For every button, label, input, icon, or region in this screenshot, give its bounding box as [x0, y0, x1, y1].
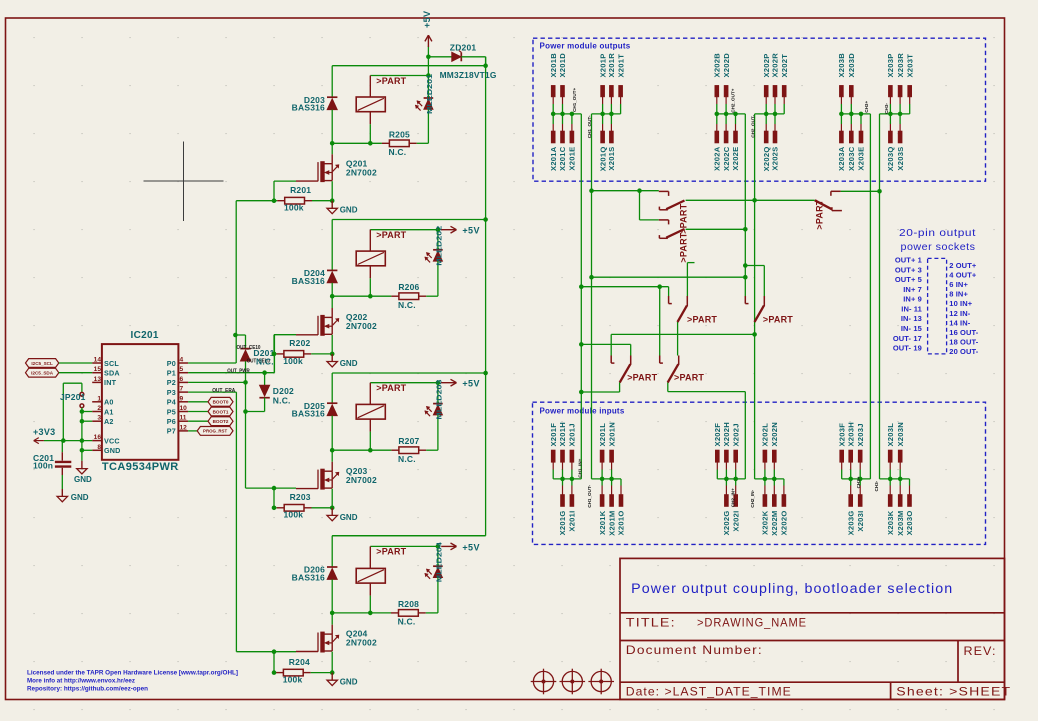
svg-text:X202I: X202I — [731, 511, 740, 532]
svg-text:A0: A0 — [104, 398, 114, 407]
svg-text:N.C.: N.C. — [388, 147, 406, 157]
svg-text:X201K: X201K — [598, 510, 607, 535]
svg-text:R201: R201 — [290, 185, 311, 195]
svg-text:X203F: X203F — [837, 423, 846, 447]
svg-text:BOOT0: BOOT0 — [213, 400, 229, 405]
svg-text:X203D: X203D — [847, 53, 856, 78]
svg-text:>PART: >PART — [814, 199, 824, 229]
svg-text:12 IN-: 12 IN- — [949, 309, 970, 318]
svg-text:X203L: X203L — [886, 423, 895, 447]
svg-text:X201A: X201A — [549, 146, 558, 171]
svg-text:X203S: X203S — [896, 147, 905, 171]
svg-text:15: 15 — [94, 366, 102, 373]
svg-text:10 IN+: 10 IN+ — [949, 299, 972, 308]
svg-text:X203P: X203P — [886, 53, 895, 77]
svg-text:7: 7 — [180, 386, 184, 393]
svg-text:X203E: X203E — [857, 147, 866, 171]
svg-text:Repository: https://github.com: Repository: https://github.com/eez-open — [27, 686, 148, 693]
svg-text:Date: >LAST_DATE_TIME: Date: >LAST_DATE_TIME — [626, 684, 792, 698]
svg-text:X203Q: X203Q — [886, 147, 895, 172]
svg-text:CH3+: CH3+ — [864, 101, 869, 113]
svg-text:GND: GND — [340, 206, 358, 215]
svg-text:8 IN+: 8 IN+ — [949, 290, 968, 299]
svg-text:X201N: X201N — [607, 422, 616, 446]
svg-text:X201I: X201I — [568, 511, 577, 532]
svg-text:SCL: SCL — [104, 359, 119, 368]
svg-text:IN- 15: IN- 15 — [901, 324, 922, 333]
svg-text:R202: R202 — [289, 338, 310, 348]
svg-text:14 IN-: 14 IN- — [949, 318, 970, 327]
svg-text:2 OUT+: 2 OUT+ — [949, 261, 977, 270]
svg-text:>PART: >PART — [376, 76, 406, 86]
svg-text:X201P: X201P — [598, 53, 607, 77]
svg-text:CH1_OUT-: CH1_OUT- — [587, 485, 592, 508]
svg-text:X203T: X203T — [905, 54, 914, 78]
svg-text:4 OUT+: 4 OUT+ — [949, 271, 977, 280]
svg-text:BAS316: BAS316 — [292, 103, 325, 113]
svg-text:>DRAWING_NAME: >DRAWING_NAME — [697, 615, 807, 629]
svg-text:BAS316: BAS316 — [292, 409, 325, 419]
svg-text:X203J: X203J — [856, 423, 865, 446]
svg-text:X202R: X202R — [771, 53, 780, 78]
svg-text:X201L: X201L — [598, 423, 607, 447]
svg-text:OUT+ 3: OUT+ 3 — [895, 265, 922, 274]
svg-text:Licensed under the TAPR Open H: Licensed under the TAPR Open Hardware Li… — [27, 670, 238, 677]
svg-text:R208: R208 — [398, 599, 419, 609]
svg-text:>PART: >PART — [763, 315, 793, 325]
svg-text:REV:: REV: — [964, 644, 997, 658]
svg-text:>PART: >PART — [679, 232, 689, 262]
svg-text:PROG_RST: PROG_RST — [203, 429, 227, 434]
svg-text:CH2_IN+: CH2_IN+ — [730, 488, 735, 507]
svg-text:MLED201: MLED201 — [425, 74, 434, 114]
svg-text:X203N: X203N — [896, 422, 905, 446]
svg-text:IN- 11: IN- 11 — [901, 305, 922, 314]
svg-text:N.C.: N.C. — [398, 617, 416, 627]
svg-text:2N7002: 2N7002 — [346, 475, 377, 485]
svg-text:X203H: X203H — [846, 422, 855, 446]
svg-text:100k: 100k — [284, 203, 304, 213]
svg-text:X202H: X202H — [722, 422, 731, 446]
svg-text:X202G: X202G — [722, 511, 731, 536]
svg-text:2N7002: 2N7002 — [346, 167, 377, 177]
svg-text:X201O: X201O — [617, 511, 626, 536]
svg-text:X202E: X202E — [731, 147, 740, 171]
svg-text:20 OUT-: 20 OUT- — [949, 347, 978, 356]
svg-text:X202K: X202K — [761, 510, 770, 535]
svg-text:X201D: X201D — [558, 53, 567, 78]
svg-text:CH3-: CH3- — [874, 480, 879, 491]
svg-text:X202S: X202S — [771, 147, 780, 171]
svg-text:MM3Z18VT1G: MM3Z18VT1G — [440, 70, 497, 80]
svg-text:X201J: X201J — [568, 423, 577, 446]
svg-text:X203I: X203I — [856, 511, 865, 532]
svg-text:X202T: X202T — [780, 54, 789, 78]
svg-text:10: 10 — [180, 405, 188, 412]
svg-text:R203: R203 — [290, 492, 311, 502]
svg-text:X201T: X201T — [616, 54, 625, 78]
svg-text:100k: 100k — [283, 675, 303, 685]
svg-text:Power output coupling, bootloa: Power output coupling, bootloader select… — [631, 581, 953, 596]
svg-text:X202M: X202M — [770, 511, 779, 536]
svg-text:OUT+ 1: OUT+ 1 — [895, 256, 922, 265]
svg-text:IN+ 9: IN+ 9 — [903, 295, 922, 304]
svg-text:11: 11 — [180, 415, 187, 422]
svg-text:GND: GND — [71, 493, 89, 502]
svg-text:X201E: X201E — [568, 147, 577, 171]
svg-text:+5V: +5V — [462, 226, 479, 236]
svg-text:IC201: IC201 — [131, 330, 159, 341]
svg-text:CH3-: CH3- — [884, 103, 889, 114]
svg-text:OUT- 19: OUT- 19 — [893, 344, 922, 353]
svg-text:GND: GND — [340, 359, 358, 368]
svg-text:MLED203: MLED203 — [435, 380, 444, 420]
svg-text:4: 4 — [180, 357, 184, 364]
svg-text:P5: P5 — [167, 407, 176, 416]
svg-text:8: 8 — [97, 444, 101, 451]
svg-text:Power module inputs: Power module inputs — [540, 407, 625, 416]
svg-text:N.C.: N.C. — [398, 454, 416, 464]
svg-text:OUT+ 5: OUT+ 5 — [895, 275, 922, 284]
svg-text:CH1_IN+: CH1_IN+ — [578, 458, 583, 477]
svg-text:2N7002: 2N7002 — [346, 638, 377, 648]
svg-text:CH1_OUT+: CH1_OUT+ — [572, 88, 577, 112]
svg-text:JP201: JP201 — [60, 392, 86, 402]
svg-text:GND: GND — [74, 475, 92, 484]
svg-text:OUT_PWR: OUT_PWR — [227, 368, 250, 374]
svg-text:OUT- 17: OUT- 17 — [893, 334, 922, 343]
svg-text:>PART: >PART — [376, 230, 406, 240]
svg-text:>PART: >PART — [376, 547, 406, 557]
svg-text:N.C.: N.C. — [256, 357, 274, 367]
svg-text:2: 2 — [97, 405, 101, 412]
svg-text:power sockets: power sockets — [901, 241, 976, 253]
svg-text:X201F: X201F — [549, 423, 558, 447]
svg-text:VCC: VCC — [104, 436, 120, 445]
svg-text:+5V: +5V — [422, 11, 432, 28]
svg-text:More info at http://www.envox.: More info at http://www.envox.hr/eez — [27, 678, 136, 685]
svg-text:20-pin output: 20-pin output — [899, 227, 976, 239]
svg-text:GND: GND — [104, 446, 121, 455]
svg-text:100n: 100n — [33, 461, 53, 471]
svg-text:100k: 100k — [283, 356, 303, 366]
svg-text:X201B: X201B — [549, 53, 558, 78]
svg-text:6: 6 — [180, 376, 184, 383]
svg-text:16: 16 — [94, 434, 102, 441]
svg-text:X202J: X202J — [731, 423, 740, 446]
svg-text:GND: GND — [340, 513, 358, 522]
svg-text:18 OUT-: 18 OUT- — [949, 337, 978, 346]
svg-text:X202P: X202P — [762, 53, 771, 77]
svg-text:X203O: X203O — [905, 511, 914, 536]
svg-text:MLED202: MLED202 — [435, 226, 444, 266]
svg-text:R207: R207 — [398, 436, 419, 446]
svg-text:SDA: SDA — [104, 369, 120, 378]
svg-text:Power module outputs: Power module outputs — [540, 42, 631, 51]
svg-text:P4: P4 — [167, 398, 176, 407]
svg-text:P2: P2 — [167, 378, 176, 387]
svg-text:R204: R204 — [289, 657, 310, 667]
svg-text:I2C5_SCL: I2C5_SCL — [31, 361, 53, 366]
svg-text:>PART: >PART — [627, 373, 657, 383]
svg-text:X203R: X203R — [896, 53, 905, 78]
svg-text:BAS316: BAS316 — [292, 276, 325, 286]
svg-text:>PART: >PART — [376, 383, 406, 393]
svg-text:>PART: >PART — [679, 203, 689, 233]
svg-text:N.C.: N.C. — [398, 300, 416, 310]
svg-text:9: 9 — [180, 395, 184, 402]
svg-text:GND: GND — [340, 678, 358, 687]
svg-text:X202L: X202L — [761, 423, 770, 447]
svg-text:Sheet: >SHEET: Sheet: >SHEET — [896, 684, 1011, 698]
svg-text:MLED204: MLED204 — [435, 541, 444, 582]
svg-text:X202O: X202O — [780, 511, 789, 536]
svg-text:X201H: X201H — [558, 422, 567, 446]
svg-text:Document Number:: Document Number: — [626, 643, 763, 657]
svg-text:ZD201: ZD201 — [450, 42, 477, 52]
svg-text:I2C5_SDA: I2C5_SDA — [31, 371, 54, 376]
svg-text:N.C.: N.C. — [273, 396, 291, 406]
svg-text:X203M: X203M — [896, 511, 905, 536]
svg-text:P3: P3 — [167, 388, 176, 397]
svg-text:X202F: X202F — [713, 423, 722, 447]
svg-text:X202N: X202N — [770, 422, 779, 446]
svg-text:6 IN+: 6 IN+ — [949, 280, 968, 289]
svg-text:CH2_IN-: CH2_IN- — [750, 489, 755, 507]
svg-text:X201M: X201M — [607, 511, 616, 536]
svg-text:X203A: X203A — [837, 146, 846, 171]
svg-text:X201Q: X201Q — [598, 147, 607, 172]
svg-text:A2: A2 — [104, 417, 114, 426]
svg-text:3: 3 — [97, 415, 101, 422]
svg-text:TCA9534PWR: TCA9534PWR — [102, 461, 179, 473]
svg-text:X203G: X203G — [846, 511, 855, 536]
svg-text:CH1_OUT-: CH1_OUT- — [587, 115, 592, 138]
svg-text:100k: 100k — [284, 510, 304, 520]
svg-text:P7: P7 — [167, 427, 176, 436]
svg-text:X201G: X201G — [558, 511, 567, 536]
svg-text:X202A: X202A — [713, 146, 722, 171]
svg-text:A1: A1 — [104, 407, 114, 416]
svg-text:INT: INT — [104, 378, 117, 387]
svg-text:X202Q: X202Q — [762, 147, 771, 172]
svg-text:P6: P6 — [167, 417, 176, 426]
svg-text:X201C: X201C — [558, 146, 567, 171]
svg-text:CH3+: CH3+ — [856, 476, 861, 488]
svg-text:X202C: X202C — [722, 146, 731, 171]
svg-text:R205: R205 — [389, 129, 410, 139]
svg-text:P1: P1 — [167, 369, 176, 378]
svg-text:X203B: X203B — [837, 53, 846, 78]
svg-text:D202: D202 — [273, 386, 294, 396]
svg-text:+5V: +5V — [462, 542, 479, 552]
svg-text:12: 12 — [180, 424, 188, 431]
svg-text:IN+ 7: IN+ 7 — [903, 285, 922, 294]
svg-text:16 OUT-: 16 OUT- — [949, 328, 978, 337]
svg-text:>PART: >PART — [674, 373, 704, 383]
svg-text:+3V3: +3V3 — [33, 427, 55, 437]
svg-text:P0: P0 — [167, 359, 176, 368]
svg-text:OUT_ERA: OUT_ERA — [212, 388, 235, 394]
svg-text:R206: R206 — [398, 282, 419, 292]
svg-text:X201S: X201S — [607, 147, 616, 171]
svg-text:CH2_OUT-: CH2_OUT- — [750, 115, 755, 138]
svg-text:5: 5 — [180, 366, 184, 373]
svg-text:13: 13 — [94, 376, 102, 383]
svg-text:>PART: >PART — [687, 315, 717, 325]
svg-text:IN- 13: IN- 13 — [901, 314, 922, 323]
svg-text:14: 14 — [94, 357, 102, 364]
svg-text:X202B: X202B — [713, 53, 722, 78]
svg-text:BOOT1: BOOT1 — [213, 409, 229, 414]
svg-text:BAS316: BAS316 — [292, 572, 325, 582]
svg-text:X203C: X203C — [847, 146, 856, 171]
svg-text:CH2_OUT+: CH2_OUT+ — [731, 88, 736, 112]
svg-text:X202D: X202D — [722, 53, 731, 78]
svg-text:X201R: X201R — [607, 53, 616, 78]
svg-text:TITLE:: TITLE: — [626, 615, 676, 629]
svg-text:1: 1 — [97, 395, 101, 402]
svg-text:2N7002: 2N7002 — [346, 321, 377, 331]
svg-text:+5V: +5V — [462, 379, 479, 389]
svg-text:BOOT2: BOOT2 — [213, 419, 229, 424]
svg-text:X203K: X203K — [886, 510, 895, 535]
